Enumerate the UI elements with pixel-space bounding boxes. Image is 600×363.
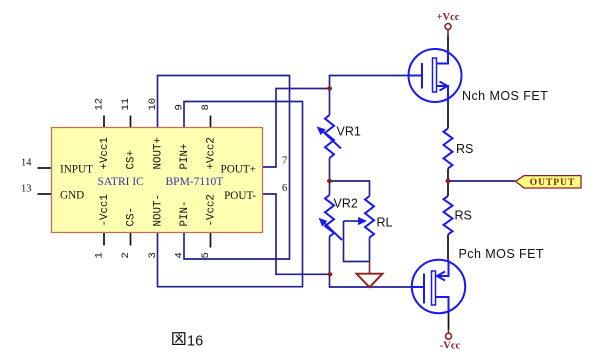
svg-text:13: 13: [21, 184, 32, 195]
svg-text:3: 3: [147, 252, 159, 258]
svg-text:POUT-: POUT-: [224, 190, 256, 202]
svg-text:+Vcc1: +Vcc1: [99, 137, 111, 169]
svg-text:VR2: VR2: [334, 197, 358, 211]
svg-text:+Vcc: +Vcc: [437, 12, 460, 23]
svg-text:12: 12: [94, 98, 106, 111]
svg-text:GND: GND: [60, 190, 84, 202]
svg-text:1: 1: [94, 252, 106, 258]
svg-text:RS: RS: [456, 142, 473, 156]
svg-text:+Vcc2: +Vcc2: [206, 137, 218, 169]
svg-text:CS+: CS+: [126, 150, 138, 169]
svg-text:CS-: CS-: [126, 207, 138, 226]
svg-text:8: 8: [200, 104, 212, 110]
svg-text:PIN+: PIN+: [179, 144, 191, 170]
svg-text:SATRI IC: SATRI IC: [98, 176, 145, 188]
svg-text:VR1: VR1: [337, 125, 361, 139]
svg-text:Pch MOS FET: Pch MOS FET: [459, 247, 545, 261]
svg-text:5: 5: [200, 252, 212, 258]
svg-text:16: 16: [187, 334, 203, 350]
svg-text:11: 11: [120, 98, 132, 111]
svg-text:6: 6: [282, 183, 287, 194]
svg-text:9: 9: [174, 104, 186, 110]
svg-text:-Vcc: -Vcc: [440, 341, 461, 352]
svg-text:NOUT-: NOUT-: [153, 194, 165, 226]
svg-text:-Vcc2: -Vcc2: [206, 194, 218, 226]
svg-text:PIN-: PIN-: [179, 201, 191, 227]
svg-text:-Vcc1: -Vcc1: [99, 194, 111, 226]
svg-text:OUTPUT: OUTPUT: [530, 178, 576, 188]
svg-text:2: 2: [120, 252, 132, 258]
svg-text:10: 10: [147, 98, 159, 111]
svg-text:INPUT: INPUT: [60, 164, 93, 176]
svg-text:RL: RL: [377, 216, 393, 230]
svg-text:4: 4: [174, 252, 186, 258]
svg-text:14: 14: [21, 158, 32, 169]
svg-text:POUT+: POUT+: [220, 164, 256, 176]
svg-text:NOUT+: NOUT+: [153, 137, 165, 169]
svg-text:7: 7: [282, 156, 287, 167]
svg-text:BPM-7110T: BPM-7110T: [166, 176, 224, 188]
svg-text:RS: RS: [455, 209, 472, 223]
svg-text:Nch MOS FET: Nch MOS FET: [462, 89, 548, 103]
